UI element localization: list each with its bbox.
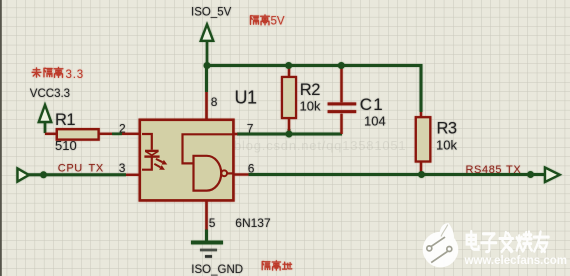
- svg-text:5V: 5V: [271, 16, 285, 28]
- svg-text:3: 3: [119, 161, 126, 175]
- wire RS485_TX net: [249, 173, 546, 176]
- U1 bubble to pin 6 stub: [227, 172, 234, 174]
- node RS485_TX terminal dot: [527, 171, 534, 178]
- svg-text:R1: R1: [55, 111, 75, 129]
- svg-text:TX: TX: [506, 164, 521, 176]
- junction ISO_5V stem on rail: [204, 62, 211, 69]
- sheet border: [0, 0, 2, 276]
- resistor R2: [282, 67, 296, 132]
- svg-text:C1: C1: [360, 95, 384, 114]
- elecfans watermark logo: [423, 223, 567, 267]
- svg-text:6: 6: [248, 161, 255, 175]
- svg-text:CPU: CPU: [58, 163, 83, 175]
- wire U1 pin 5 to ground: [205, 230, 208, 243]
- svg-text:www.elecfans.com: www.elecfans.com: [464, 255, 567, 267]
- resistor R1: [45, 129, 140, 139]
- wire CPU_TX net: [28, 173, 126, 176]
- capacitor C1: [328, 67, 357, 134]
- output terminal RS485_TX: [545, 168, 560, 182]
- svg-text:5: 5: [209, 216, 216, 230]
- U1 internal LED diode: [142, 134, 160, 170]
- node CPU_TX terminal dot: [40, 171, 47, 178]
- label 隔离地: [262, 261, 292, 270]
- wire U1 pin 8 to rail: [205, 66, 208, 93]
- svg-text:10k: 10k: [436, 138, 457, 153]
- junction R2 top on rail: [285, 62, 292, 69]
- svg-text:510: 510: [55, 138, 77, 153]
- wire rail to R3 top: [420, 64, 423, 112]
- U1 LED emission arrows: [154, 159, 167, 170]
- svg-text:2: 2: [119, 122, 126, 136]
- svg-text:R3: R3: [437, 120, 457, 138]
- junction C1 top on rail: [338, 62, 345, 69]
- U1 internal enable rectangle to pin 7: [183, 134, 234, 163]
- svg-text:6N137: 6N137: [235, 216, 271, 230]
- svg-text:ISO_GND: ISO_GND: [191, 264, 243, 276]
- wire U1 pin 7 to R2 and C1 bottoms: [237, 133, 342, 136]
- svg-text:U1: U1: [235, 88, 257, 108]
- power symbol ISO_5V arrow: [201, 25, 213, 66]
- svg-text:blog.csdn.net/qq13581051: blog.csdn.net/qq13581051: [234, 138, 406, 153]
- svg-text:TX: TX: [89, 163, 104, 175]
- resistor R3: [416, 112, 431, 175]
- opto-coupler U1 6N137 body: [126, 92, 249, 230]
- label 未隔离3.3: [32, 67, 63, 77]
- svg-text:RS485: RS485: [466, 164, 503, 176]
- svg-text:R2: R2: [300, 81, 320, 99]
- svg-text:3.3: 3.3: [66, 69, 84, 81]
- svg-text:7: 7: [247, 121, 254, 135]
- svg-text:ISO_5V: ISO_5V: [191, 6, 232, 18]
- wire ISO_5V rail top horizontal: [207, 64, 421, 67]
- wire R2 bottom stub: [288, 129, 291, 134]
- ground symbol ISO_GND: [191, 241, 223, 258]
- svg-text:VCC3.3: VCC3.3: [30, 88, 70, 100]
- junction R2 bottom on pin7 net: [286, 131, 293, 138]
- svg-text:104: 104: [364, 113, 386, 128]
- power symbol VCC3.3 arrow: [39, 105, 51, 133]
- junction R3 bottom on RS485_TX net: [418, 171, 425, 178]
- U1 gate output bubble: [221, 170, 227, 176]
- elecfans watermark chinese text: [467, 231, 549, 251]
- U1 internal AND gate: [194, 156, 222, 191]
- label 隔离5V: [250, 15, 269, 25]
- input terminal CPU_TX: [18, 169, 29, 182]
- svg-text:8: 8: [211, 95, 218, 109]
- svg-text:10k: 10k: [300, 99, 321, 114]
